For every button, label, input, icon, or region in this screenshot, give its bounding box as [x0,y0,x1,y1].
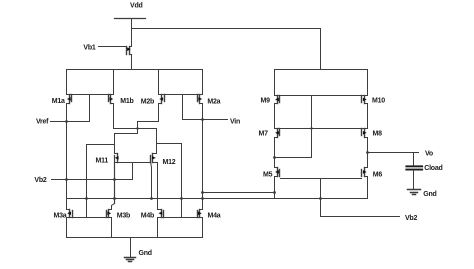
junction Vb2-M1a column [65,178,68,181]
transistor M5 [275,168,280,177]
label Cload [424,165,442,172]
wire M1a drain drop [66,70,68,95]
transistor M2a [198,95,203,104]
label M4a [208,213,221,220]
transistor M1b [109,95,114,104]
transistor M11 [115,154,119,163]
wire M12 source column [157,163,159,210]
net label Vref [36,119,49,126]
junction crossing M7 tie [310,127,312,129]
label M11 [96,158,109,165]
label Gnd right [423,191,436,198]
wire Vb2 right riser [320,179,322,217]
wire Vb1 gate [99,46,127,48]
transistor Vb1 (tail PMOS) [127,47,132,55]
M11 gate bar and riser [114,156,116,204]
svg-text:M7: M7 [259,131,269,138]
net label Vb1 [83,45,95,52]
junction Vref-M1a source [65,120,68,123]
svg-text:Gnd: Gnd [139,250,152,257]
junction rail-M2a column [201,197,204,200]
label M1b [120,98,133,105]
wire Vdd stem [131,19,133,47]
transistor M1a [67,95,72,104]
transistor M3b [107,210,112,218]
svg-text:Vin: Vin [230,119,240,126]
svg-text:M5: M5 [263,171,273,178]
wire M2a drain drop [202,70,204,95]
wire Vb2 right [321,216,400,218]
wire M4a source drop [202,218,204,238]
transistor M12 [151,154,157,163]
transistor M8 [362,129,368,138]
wire M10 drain drop [367,70,369,96]
svg-text:Cload: Cload [424,165,442,172]
capacitor Cload [405,153,423,190]
svg-text:M10: M10 [372,98,385,105]
wire bias rail [67,198,368,200]
wire M2b source [138,104,159,134]
wire Vin [183,119,228,121]
junction rail-M12 gate riser [150,197,153,200]
transistor M2b [159,95,165,104]
wire M9 drain drop [274,70,276,96]
wire M1b source [114,104,157,129]
junction Vo tap [366,151,369,154]
ground right [408,190,421,195]
svg-text:Vb2: Vb2 [405,215,417,222]
label M5 [263,171,273,178]
junction at M5 column [273,191,276,194]
junction rail-M11 riser [113,197,116,200]
wire M3 gate feed from M11 drain [87,145,115,218]
transistor M6 [362,168,368,177]
wire source tie drop to Vb2 [132,163,134,180]
wire M10 source column [367,104,369,129]
svg-text:M9: M9 [261,98,271,105]
wire M2b-M2a gate tie [159,94,203,96]
svg-text:M3b: M3b [117,213,130,220]
svg-text:M2b: M2b [141,99,154,106]
net label Vb2 right [405,215,417,222]
wire M4b-M4a gate tie [158,217,203,219]
svg-text:M12: M12 [163,159,176,166]
junction at M2a column [201,191,204,194]
wire M9-M10 gate tie [275,95,368,97]
label M2a [207,99,220,106]
wire tail drain [131,55,133,70]
label M1a [52,98,65,105]
transistor M4a [198,210,203,218]
net label Vin [230,119,240,126]
junction Vin-M2a source [201,118,204,121]
wire M7-M8 gate tie [275,128,368,130]
wire M11-M12 source tie [118,162,151,164]
label M4b [141,213,154,220]
wire M12 gate jog riser [151,162,152,199]
label M2b [141,99,154,106]
svg-text:M1b: M1b [120,98,133,105]
wire M6 source drop [367,177,369,199]
wire M1a-M1b gate tie [67,94,114,96]
label Gnd left [139,250,152,257]
label M8 [373,131,383,138]
junction Vb2-M11 gate riser [113,178,116,181]
svg-text:Vref: Vref [36,119,49,126]
wire Vb2 left [52,179,133,181]
wire M9-M10 gate drop [275,96,312,158]
wire M4 gate feed from M12 drain [157,144,182,218]
wire M12 drain feed [156,129,158,154]
power Vdd label [130,3,142,10]
svg-text:M1a: M1a [52,98,65,105]
svg-text:M6: M6 [373,171,383,178]
svg-text:Vb2: Vb2 [34,177,46,184]
junction rail-M3 gate riser [85,197,88,200]
transistor M9 [275,96,280,104]
wire left top rail [67,69,203,71]
wire M3b source drop [111,218,113,238]
label M10 [372,98,385,105]
net label Vb2 left [34,177,46,184]
wire M1b drain drop [113,70,115,95]
transistor M3a [67,210,73,218]
junction rail-Vb2 right riser [319,197,322,200]
label M3a [54,213,67,220]
label M6 [373,171,383,178]
wire M1a source column [66,104,68,210]
wire M4b source drop [157,218,159,238]
transistor M7 [275,129,280,138]
svg-text:Vb1: Vb1 [83,45,95,52]
wire M3b drain jog [112,204,115,210]
wire M2a source column [202,104,204,210]
Vdd supply bar [115,18,146,20]
wire Vdd branch to right block [132,29,321,70]
svg-text:M3a: M3a [54,213,67,220]
wire cascode node to M5 column [203,192,275,194]
svg-text:Vo: Vo [425,151,433,158]
net label Vo [425,151,433,158]
wire M7 source column [274,138,276,168]
junction rail-M4 gate riser [180,197,183,200]
svg-text:M2a: M2a [207,99,220,106]
svg-text:M11: M11 [96,158,109,165]
wire M3a source drop [66,218,68,238]
wire M8 source column [367,138,369,168]
wire Vin riser to gates [182,95,184,120]
wire M5-M6 gate tie [281,178,362,180]
label M3b [117,213,130,220]
transistor M10 [362,96,368,104]
wire M9 source column [274,104,276,129]
transistor M4b [158,210,164,218]
wire right top rail [275,69,368,71]
label M12 [163,159,176,166]
ground left [125,238,136,262]
wire M5 source drop [274,177,276,199]
wire bottom rail [67,237,203,239]
wire Vref riser to gates [89,95,91,122]
svg-text:M4a: M4a [208,213,221,220]
wire M2b drain drop [158,70,160,95]
wire Vo [368,152,419,154]
label M9 [261,98,271,105]
junction gate drop joins column [273,156,276,159]
svg-text:M8: M8 [373,131,383,138]
svg-text:M4b: M4b [141,213,154,220]
junction node merge [136,127,138,129]
label M7 [259,131,269,138]
svg-text:Gnd: Gnd [423,191,436,198]
wire Vref [51,121,90,123]
wire M11 drain feed [115,134,138,154]
wire M3a-M3b gate tie [67,217,112,219]
svg-text:Vdd: Vdd [130,3,142,10]
